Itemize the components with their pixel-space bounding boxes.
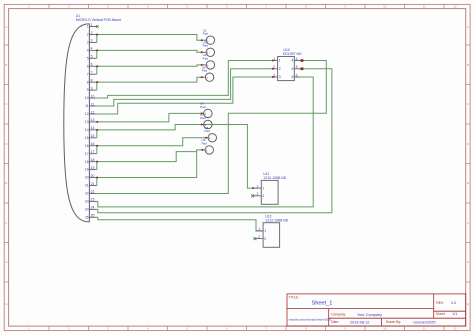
svg-text:Drawn By:: Drawn By: — [386, 320, 401, 324]
U1 pin 22 stub — [89, 192, 96, 194]
no-connect cross U12 pin 2 — [253, 237, 256, 240]
svg-text:2: 2 — [258, 235, 260, 239]
U1 pin 21 number labels — [85, 182, 95, 188]
U1 pin 11 stub — [89, 105, 96, 107]
U1 pin 2 stub — [89, 33, 96, 35]
wire net pin2 to pad U2 — [97, 34, 202, 40]
U10 pin 6 — [292, 73, 299, 79]
svg-text:10: 10 — [383, 5, 387, 9]
svg-text:23: 23 — [91, 198, 95, 202]
no-connect cross U1 pin 1 — [96, 25, 99, 28]
U10 pin 4 — [292, 57, 301, 63]
U1 pin 15 stub — [89, 137, 96, 139]
svg-text:Pad: Pad — [202, 69, 208, 73]
U1 pin 20 stub — [89, 177, 96, 179]
U1 pin 3 stub — [89, 41, 96, 43]
U1 pin 19 number labels — [85, 166, 95, 172]
svg-text:6: 6 — [91, 63, 93, 67]
svg-text:24: 24 — [85, 207, 89, 211]
svg-text:1: 1 — [87, 25, 89, 29]
connector U1 MICRO-D 25 pin body — [64, 24, 90, 222]
wire net pin24 to U10 pin5 — [97, 69, 332, 213]
frame row ticks left — [4, 44, 8, 46]
junction at U10 pin 4 — [301, 59, 304, 62]
wire net pin25 to U12 pin1 — [97, 217, 263, 231]
U1 pin 17 number labels — [85, 150, 95, 156]
svg-text:1: 1 — [257, 184, 259, 188]
U1 pin 5 stub — [89, 57, 96, 59]
svg-text:easyeda.com/user/project/ranch: easyeda.com/user/project/ranchen2025 — [289, 319, 332, 322]
svg-text:10: 10 — [85, 96, 89, 100]
U10 pin 3 — [273, 73, 281, 79]
svg-text:13: 13 — [91, 118, 95, 122]
svg-text:16: 16 — [91, 142, 95, 146]
svg-text:Pad: Pad — [203, 32, 209, 36]
wire pin 6 to pin 7 link — [96, 66, 98, 74]
svg-text:1: 1 — [91, 23, 93, 27]
junction at U1 pin 16 — [96, 145, 98, 147]
op-amp U10 box — [278, 57, 295, 81]
svg-text:Pad: Pad — [200, 116, 206, 120]
junction at pad U5 pin — [201, 76, 203, 78]
pad U3 — [202, 41, 215, 57]
svg-text:19: 19 — [91, 166, 95, 170]
svg-text:22: 22 — [91, 190, 95, 194]
U1 pin 2 number labels — [87, 31, 93, 37]
svg-text:8: 8 — [91, 78, 93, 82]
U1 pin 11 number labels — [85, 102, 94, 108]
U1 pin 20 number labels — [85, 174, 95, 180]
svg-text:Pad: Pad — [203, 56, 209, 60]
U1 pin 8 number labels — [87, 78, 93, 84]
wire pin 14 to pin 15 link — [96, 130, 98, 138]
U1 pin 15 number labels — [85, 134, 95, 140]
U1 pin 10 number labels — [85, 94, 95, 100]
U1 pin 23 number labels — [85, 198, 95, 204]
svg-text:2: 2 — [257, 192, 259, 196]
svg-text:11: 11 — [423, 327, 426, 331]
junction at U1 pin 13 — [96, 121, 98, 123]
svg-text:B: B — [467, 63, 469, 67]
svg-text:24: 24 — [91, 206, 95, 210]
wire pin 16 to pin 17 link — [96, 146, 98, 154]
U1 pin 23 stub — [89, 200, 96, 202]
junction at pad U2 pin — [201, 39, 203, 41]
svg-text:15: 15 — [85, 136, 89, 140]
pad U4 — [202, 53, 215, 69]
wire pin 20 to pin 21 link — [96, 178, 98, 186]
wire net pin18 link — [97, 152, 197, 162]
wire net pin8 to pad U5 — [97, 77, 202, 82]
svg-text:E: E — [467, 181, 469, 185]
svg-text:Your Company: Your Company — [357, 313, 382, 317]
svg-text:18: 18 — [85, 160, 89, 164]
svg-text:12: 12 — [91, 110, 95, 114]
svg-text:H: H — [467, 302, 469, 306]
svg-text:21: 21 — [85, 184, 89, 188]
svg-text:12: 12 — [453, 327, 457, 331]
svg-text:25: 25 — [85, 215, 89, 219]
svg-text:9: 9 — [87, 88, 89, 92]
svg-text:1: 1 — [258, 227, 260, 231]
U1 pin 5 number labels — [87, 55, 93, 61]
svg-text:5: 5 — [292, 67, 294, 71]
U1 pin 13 number labels — [85, 118, 95, 124]
U1 pin 14 number labels — [85, 126, 95, 132]
svg-text:Company:: Company: — [331, 313, 346, 317]
title block values — [289, 300, 458, 324]
U1 pin 25 stub — [89, 216, 96, 218]
wire net pin11 to U10 pin2 — [97, 69, 273, 106]
U1 pin 6 stub — [89, 65, 96, 67]
junction at U1 pin 20 — [96, 177, 98, 179]
svg-text:23: 23 — [85, 200, 89, 204]
svg-text:Pad: Pad — [202, 141, 208, 145]
U1 pin 8 stub — [89, 81, 96, 83]
wire net pin13 to pad U6 — [97, 113, 202, 122]
svg-text:B: B — [5, 63, 7, 67]
U1 pin 14 stub — [89, 129, 96, 131]
U10 pin 1 — [273, 57, 281, 63]
U11 pin 2 — [253, 192, 264, 198]
svg-text:18: 18 — [91, 158, 95, 162]
wire net pin6 to pad U4 — [97, 65, 202, 66]
svg-text:6: 6 — [292, 75, 294, 79]
svg-text:17: 17 — [85, 152, 89, 156]
junction at U10 pin 1 — [272, 60, 274, 62]
pad U5 — [202, 66, 214, 82]
junction at U1 pin 2 — [96, 33, 98, 35]
svg-text:Pad: Pad — [203, 44, 209, 48]
svg-text:3: 3 — [279, 75, 281, 79]
svg-text:6: 6 — [296, 73, 298, 77]
pad U9 — [202, 138, 214, 154]
U1 pin 4 stub — [89, 49, 96, 51]
wire net pin4 to pad U3 — [97, 50, 202, 52]
svg-text:A: A — [5, 25, 7, 29]
svg-text:ranchen2025: ranchen2025 — [413, 320, 435, 324]
svg-text:TITLE:: TITLE: — [289, 296, 299, 300]
svg-text:F: F — [467, 221, 469, 225]
junction at pad U7 pin — [201, 124, 203, 126]
connector U11 box — [261, 180, 278, 204]
title block labels — [289, 296, 446, 325]
svg-text:ED1097 ND: ED1097 ND — [283, 52, 302, 56]
svg-text:2: 2 — [262, 194, 264, 198]
svg-text:2: 2 — [279, 67, 281, 71]
wire net pin12 to U10 pin3 — [97, 77, 273, 114]
junction at U1 pin 8 — [96, 81, 98, 83]
svg-text:13: 13 — [85, 120, 89, 124]
svg-text:5: 5 — [91, 55, 93, 59]
svg-text:1.0: 1.0 — [451, 301, 456, 305]
junction at U10 pin 3 — [272, 76, 274, 78]
U1 pin 18 number labels — [85, 158, 95, 164]
svg-text:Sheet:: Sheet: — [436, 312, 446, 316]
wire pin 18 to pin 19 link — [96, 162, 98, 170]
svg-text:11: 11 — [423, 5, 426, 9]
svg-text:8: 8 — [87, 80, 89, 84]
svg-text:12: 12 — [85, 112, 89, 116]
svg-text:6: 6 — [87, 64, 89, 68]
svg-text:5: 5 — [296, 65, 298, 69]
svg-text:7: 7 — [91, 71, 93, 75]
svg-text:1212-1088-ND: 1212-1088-ND — [263, 176, 286, 180]
svg-text:12: 12 — [453, 5, 457, 9]
pad U8 — [205, 126, 217, 142]
svg-text:H: H — [5, 302, 7, 306]
svg-text:1212-1088-ND: 1212-1088-ND — [265, 219, 288, 223]
U1 pin 7 number labels — [87, 71, 93, 77]
U1 pin 24 number labels — [85, 206, 95, 212]
svg-text:REV:: REV: — [436, 301, 444, 305]
svg-text:11: 11 — [85, 104, 89, 108]
title block frame — [287, 294, 466, 326]
svg-text:4: 4 — [91, 47, 93, 51]
svg-text:4: 4 — [296, 57, 298, 61]
U12 pin 2 — [256, 235, 267, 241]
wire net pin23 to U10 pin6 — [97, 77, 313, 207]
U1 pin 10 stub — [89, 97, 96, 99]
svg-text:14: 14 — [85, 128, 89, 132]
svg-text:4: 4 — [292, 59, 294, 63]
junction at U1 pin 14 — [96, 129, 98, 131]
svg-text:A: A — [467, 25, 469, 29]
U11 pin 1 — [253, 184, 264, 190]
svg-text:15: 15 — [91, 134, 95, 138]
U1 pin 16 number labels — [85, 142, 95, 148]
svg-text:1: 1 — [264, 229, 266, 233]
junction at pad U9 pin — [201, 149, 203, 151]
wire net pin10 to U10 pin1 — [97, 61, 273, 99]
svg-text:Date:: Date: — [331, 320, 339, 324]
U1 pin 12 stub — [89, 113, 96, 115]
svg-text:21: 21 — [91, 182, 95, 186]
junction at pad U8 pin — [205, 137, 207, 139]
svg-text:1: 1 — [279, 59, 281, 63]
svg-text:4: 4 — [87, 48, 89, 52]
frame row ticks right — [466, 44, 470, 46]
svg-text:2: 2 — [87, 33, 89, 37]
U1 pin 6 number labels — [87, 63, 93, 69]
svg-text:E: E — [5, 181, 7, 185]
junction at U10 pin 2 — [272, 68, 274, 70]
U10 pin 5 — [292, 65, 301, 71]
svg-text:2: 2 — [264, 237, 266, 241]
svg-text:1/1: 1/1 — [452, 312, 457, 316]
junction at U1 pin 4 — [96, 49, 98, 51]
wire net pin20 to pad U9 — [97, 150, 202, 178]
junction at U1 pin 6 — [96, 65, 98, 67]
svg-text:20: 20 — [85, 176, 89, 180]
svg-text:Sheet_1: Sheet_1 — [312, 300, 333, 306]
junction at U11 pin 1 — [252, 187, 254, 189]
junction at pad U6 pin — [201, 112, 203, 114]
U1 pin 25 number labels — [85, 214, 95, 220]
svg-text:25: 25 — [91, 214, 95, 218]
junction at U10 pin 5 — [301, 68, 304, 71]
wire net pin22 to U10 pin4 — [97, 61, 326, 194]
svg-text:5: 5 — [87, 56, 89, 60]
U1 pin 1 number labels — [87, 23, 93, 29]
svg-text:10: 10 — [91, 94, 95, 98]
U1 pin 19 stub — [89, 169, 96, 171]
svg-text:22: 22 — [85, 192, 89, 196]
svg-text:3: 3 — [87, 41, 89, 45]
junction at pad U3 pin — [201, 51, 203, 53]
wire net pin14 to pad U7 and U11 pin1 — [97, 125, 253, 189]
pad U6 — [200, 102, 212, 118]
U1 pin 9 number labels — [87, 86, 93, 92]
U10 pin 2 — [273, 65, 281, 71]
svg-text:17: 17 — [91, 150, 95, 154]
frame column ticks bottom — [48, 326, 50, 331]
svg-text:Pad: Pad — [200, 105, 206, 109]
U1 pin 22 number labels — [85, 190, 95, 196]
U1 pin 9 stub — [89, 89, 96, 91]
wire pin 8 to pin 9 link — [96, 82, 98, 90]
junction at U1 pin 18 — [96, 161, 98, 163]
frame column ticks top — [48, 4, 50, 8]
svg-text:2: 2 — [91, 31, 93, 35]
U1 pin 18 stub — [89, 161, 96, 163]
svg-text:11: 11 — [91, 102, 95, 106]
svg-text:10: 10 — [383, 327, 387, 331]
U12 pin 1 — [256, 227, 267, 233]
svg-text:F: F — [5, 221, 7, 225]
U1 pin 16 stub — [89, 145, 96, 147]
svg-text:7: 7 — [87, 72, 89, 76]
U1 pin 24 stub — [89, 208, 96, 210]
svg-text:14: 14 — [91, 126, 95, 130]
U1 pin 21 stub — [89, 185, 96, 187]
svg-text:9: 9 — [91, 86, 93, 90]
U1 pin 13 stub — [89, 121, 96, 123]
svg-text:19: 19 — [85, 168, 89, 172]
svg-text:20: 20 — [91, 174, 95, 178]
svg-text:16: 16 — [85, 144, 89, 148]
svg-text:3: 3 — [91, 39, 93, 43]
wire pin 2 to pin 3 link — [96, 34, 98, 42]
U1 pin 1 stub — [89, 26, 96, 28]
U1 pin 3 number labels — [87, 39, 93, 45]
U1 pin 4 number labels — [87, 47, 93, 53]
svg-text:MICRO-D Vertical PCB Mount: MICRO-D Vertical PCB Mount — [76, 18, 121, 22]
pad U7 — [200, 113, 212, 129]
connector U12 box — [263, 223, 280, 248]
wire net pin16 to pad U8 — [97, 138, 206, 146]
wire pin 4 to pin 5 link — [96, 50, 98, 58]
svg-text:Pad: Pad — [205, 129, 211, 133]
no-connect cross U11 pin 2 — [251, 194, 254, 197]
svg-text:2019-08-12: 2019-08-12 — [350, 320, 369, 324]
pad U2 — [202, 29, 215, 45]
svg-text:1: 1 — [262, 186, 264, 190]
U1 pin 12 number labels — [85, 110, 95, 116]
U1 pin 17 stub — [89, 153, 96, 155]
junction at pad U4 pin — [201, 64, 203, 66]
U1 pin 7 stub — [89, 73, 96, 75]
